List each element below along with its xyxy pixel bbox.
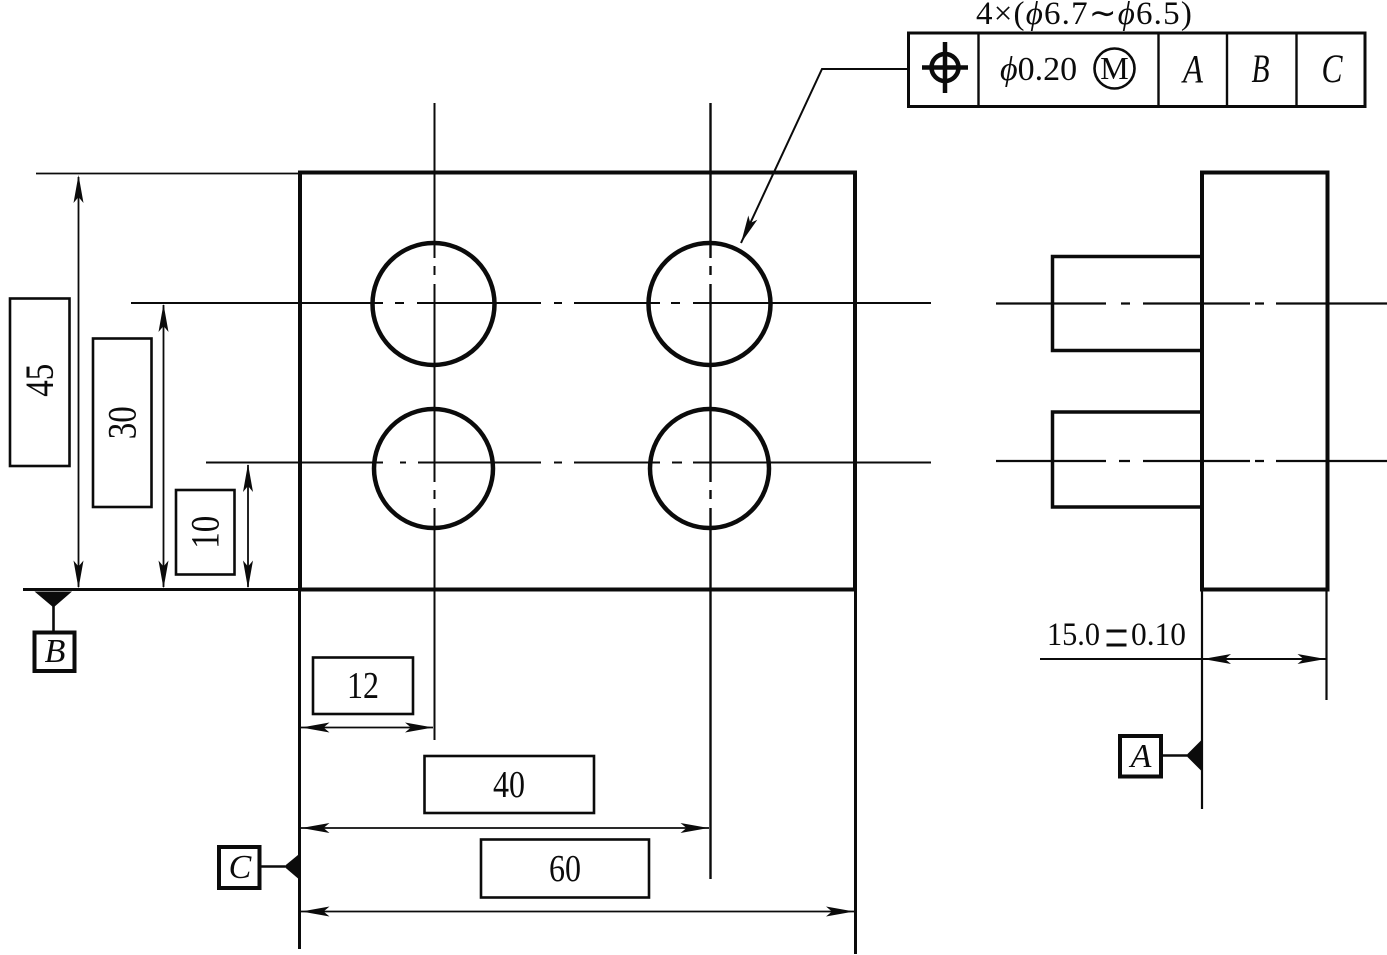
centerline upper (side view) <box>996 302 1387 304</box>
dimension 30 box <box>93 339 152 508</box>
centerline horizontal upper (front view) <box>131 302 931 304</box>
datum B triangle <box>35 592 73 608</box>
svg-text:15.0: 15.0 <box>1047 617 1100 653</box>
dimension 45 box <box>10 299 70 467</box>
dimension 15 line <box>1040 654 1326 664</box>
svg-text:0.10: 0.10 <box>1131 617 1186 653</box>
dimension 10 line <box>243 464 253 589</box>
dimension 40 box <box>425 756 595 813</box>
svg-text:45: 45 <box>17 364 62 397</box>
svg-text:M: M <box>1100 50 1128 86</box>
dimension 40 line <box>301 823 709 833</box>
dimension 12 box <box>313 658 413 715</box>
svg-text:C: C <box>1322 46 1344 91</box>
feature control frame outer box <box>909 33 1366 107</box>
dimension 60 box <box>481 840 649 898</box>
hole bottom-left <box>374 409 493 528</box>
centerline vertical left (front view) <box>434 103 436 740</box>
hole top-left <box>373 243 495 365</box>
FCF divider 3 <box>1226 33 1228 107</box>
svg-text:4×(ϕ6.7∼ϕ6.5): 4×(ϕ6.7∼ϕ6.5) <box>976 0 1193 32</box>
centerline horizontal lower (front view) <box>206 462 931 464</box>
svg-text:60: 60 <box>549 848 581 890</box>
svg-text:C: C <box>229 849 252 886</box>
hole top-right <box>649 243 771 365</box>
svg-text:A: A <box>1129 738 1152 775</box>
dimension 30 line <box>159 304 169 589</box>
dimension 45 line <box>74 175 84 589</box>
leader line to hole <box>741 69 908 243</box>
svg-text:B: B <box>1252 46 1270 91</box>
dimension 12 line <box>301 723 433 733</box>
side view main rectangle <box>1202 173 1328 590</box>
extension line left edge below plate (datum C line) <box>298 591 301 949</box>
datum C stem <box>260 865 286 868</box>
dimension 15.0+-0.10 text <box>1047 617 1186 653</box>
datum C box <box>219 847 260 888</box>
extension line right edge below plate <box>854 591 857 954</box>
FCF divider 4 <box>1295 33 1297 107</box>
modifier M circle <box>1095 49 1135 89</box>
datum B stem <box>52 606 55 633</box>
leader arrowhead <box>736 216 757 246</box>
centerline vertical right (front view) <box>709 103 711 879</box>
side view lower hole boss <box>1053 412 1203 507</box>
datum A box <box>1120 736 1161 777</box>
FCF divider 2 <box>1157 33 1159 107</box>
svg-text:A: A <box>1181 47 1204 92</box>
datum B box <box>35 633 75 672</box>
centerline lower (side view) <box>996 460 1387 462</box>
svg-text:10: 10 <box>183 516 228 549</box>
side view upper hole boss <box>1053 257 1203 351</box>
svg-text:ϕ0.20: ϕ0.20 <box>1000 51 1077 88</box>
svg-text:40: 40 <box>493 764 525 806</box>
dimension 10 box <box>176 490 235 575</box>
dimension 60 line <box>301 907 854 917</box>
FCF divider 1 <box>977 33 979 107</box>
svg-text:30: 30 <box>100 406 145 439</box>
extension line bottom-left (datum B surface) <box>23 588 300 591</box>
datum A triangle <box>1186 740 1202 772</box>
position tolerance symbol <box>922 42 968 93</box>
plate outline (front view) <box>300 173 855 590</box>
hole bottom-right <box>650 409 769 528</box>
extension line top (for dim 45) <box>36 173 300 175</box>
datum C triangle <box>284 853 301 882</box>
svg-text:B: B <box>45 633 66 670</box>
datum A stem <box>1161 754 1187 757</box>
svg-text:12: 12 <box>347 665 379 707</box>
extension line side-left below <box>1201 591 1203 809</box>
extension line side-right below <box>1325 591 1327 700</box>
